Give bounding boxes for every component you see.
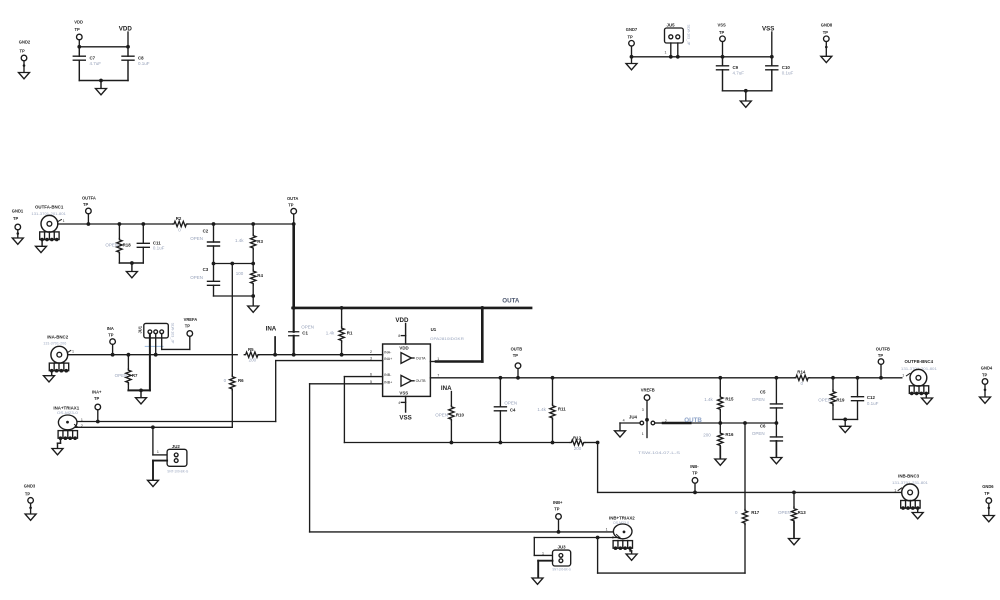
svg-text:SLW-103_JP: SLW-103_JP [170, 323, 174, 344]
svg-text:OUTA: OUTA [416, 357, 426, 361]
svg-text:OUTB: OUTB [684, 417, 702, 424]
svg-text:VSS: VSS [399, 391, 408, 396]
wire INA+ from op-amp to TRIAX1 [68, 361, 383, 424]
svg-text:TP: TP [20, 49, 26, 54]
resistor R1 [326, 306, 353, 355]
svg-text:INB+: INB+ [384, 380, 392, 384]
svg-text:OUTB: OUTB [511, 347, 523, 352]
svg-text:200: 200 [703, 432, 711, 437]
test point GND3 [24, 484, 36, 521]
test point INB+ [553, 500, 563, 532]
wire op-amp OUTA pin stub [430, 361, 436, 363]
resistor R4 [236, 264, 264, 297]
wire OUTB stub from JU4 pin2 [655, 419, 779, 425]
wire R2 to OUTA node [188, 223, 294, 225]
svg-text:1: 1 [894, 488, 896, 492]
svg-text:C12: C12 [867, 395, 876, 400]
svg-text:OPEN: OPEN [752, 397, 765, 402]
resistor R2 [173, 216, 188, 233]
wire TRIAX1 pin2 guard [76, 425, 233, 429]
svg-text:TP: TP [83, 202, 89, 207]
svg-text:OPEN: OPEN [818, 397, 831, 402]
svg-text:0.1uF: 0.1uF [138, 61, 150, 66]
wire VSS rail [632, 55, 774, 59]
test point GND6 [982, 484, 994, 522]
svg-text:4.7uF: 4.7uF [90, 61, 102, 66]
svg-text:OUTFA-BNC1: OUTFA-BNC1 [35, 205, 64, 210]
svg-text:TP: TP [719, 30, 725, 35]
svg-text:TP: TP [878, 353, 884, 358]
jumper JU2 [153, 427, 189, 473]
svg-text:OPEN: OPEN [435, 412, 448, 417]
svg-text:1.4k: 1.4k [326, 331, 335, 336]
wire INB+ feed [310, 384, 615, 534]
svg-text:100: 100 [236, 271, 244, 276]
wire + ground below R19 C12 [833, 418, 858, 433]
svg-text:OPEN: OPEN [301, 325, 314, 330]
svg-text:0.1uF: 0.1uF [867, 401, 879, 406]
svg-text:200: 200 [574, 446, 582, 451]
svg-text:INA-BNC2: INA-BNC2 [47, 334, 69, 339]
capacitor C10 [766, 57, 794, 91]
svg-text:INB+: INB+ [553, 500, 563, 505]
test point OUTA [287, 196, 298, 226]
svg-text:R18: R18 [123, 242, 132, 247]
resistor R11 [537, 378, 566, 445]
test point GND1 [12, 208, 24, 244]
svg-text:VSS: VSS [399, 414, 411, 421]
capacitor C6 [752, 423, 783, 464]
svg-text:INB+TRIAX2: INB+TRIAX2 [609, 515, 635, 520]
resistor R14 [795, 369, 810, 386]
svg-text:R1: R1 [347, 330, 353, 335]
resistor R17 labels [735, 510, 760, 515]
svg-text:4.7uF: 4.7uF [733, 71, 745, 76]
svg-text:TP: TP [823, 30, 829, 35]
capacitor C1 [289, 308, 314, 357]
node INA stub [266, 325, 277, 354]
resistor R13 [778, 492, 806, 544]
wire INA- input [68, 354, 238, 356]
node VSS at op-amp [398, 396, 411, 421]
test point VREFB [641, 387, 655, 437]
svg-text:VSS: VSS [762, 26, 774, 33]
wire OUTB to R17 loop [596, 423, 748, 573]
svg-text:JU3: JU3 [558, 545, 567, 550]
svg-text:JU5: JU5 [667, 22, 676, 27]
svg-text:SNT-100-BK-G: SNT-100-BK-G [552, 567, 571, 571]
svg-text:C8: C8 [138, 56, 144, 61]
svg-text:R13: R13 [798, 510, 807, 515]
svg-text:C2: C2 [203, 229, 209, 234]
svg-text:1: 1 [606, 527, 608, 531]
svg-text:SLW-103_JP: SLW-103_JP [687, 25, 691, 46]
resistor R18 [105, 222, 131, 263]
U1 designator [430, 327, 465, 341]
svg-text:R6: R6 [238, 378, 244, 383]
svg-text:OUTFB-BNC4: OUTFB-BNC4 [905, 359, 934, 364]
test point OUTFA [82, 195, 96, 226]
svg-text:OPEN: OPEN [752, 431, 765, 436]
jumper JU5 [665, 22, 691, 58]
svg-text:7: 7 [437, 374, 439, 378]
svg-text:VDD: VDD [395, 317, 409, 324]
svg-text:VDD: VDD [119, 26, 133, 33]
svg-text:C1: C1 [302, 330, 308, 335]
test point INB- [690, 464, 699, 492]
svg-text:1: 1 [81, 418, 83, 422]
connector INA+TRIAX1 [52, 406, 83, 455]
wire INA- to op-amp [259, 353, 382, 357]
svg-text:VSS: VSS [718, 23, 726, 28]
svg-text:TP: TP [692, 471, 698, 476]
connector INB-BNC3 [892, 473, 928, 519]
svg-text:C4: C4 [510, 407, 516, 412]
svg-text:R10: R10 [456, 412, 465, 417]
svg-text:TP: TP [25, 491, 31, 496]
svg-text:R7: R7 [132, 373, 138, 378]
svg-text:1: 1 [665, 51, 667, 55]
resistor R10 on node INA [435, 385, 464, 444]
svg-text:R19: R19 [836, 397, 845, 402]
svg-text:TP: TP [108, 332, 114, 337]
svg-text:OPA2810IDGKR: OPA2810IDGKR [430, 337, 465, 341]
capacitor C3 [190, 264, 219, 297]
resistor R16 [703, 423, 734, 465]
svg-text:INA+: INA+ [384, 357, 392, 361]
svg-text:OS-M23-0: OS-M23-0 [57, 411, 78, 415]
test point GND4 [980, 365, 993, 403]
svg-text:C10: C10 [782, 65, 791, 70]
svg-text:TP: TP [628, 34, 634, 39]
svg-text:INB-: INB- [690, 464, 699, 469]
svg-text:TSW-104-07-L-S: TSW-104-07-L-S [638, 451, 681, 455]
svg-text:GND6: GND6 [982, 484, 994, 489]
svg-text:R16: R16 [725, 432, 734, 437]
svg-text:R3: R3 [257, 239, 263, 244]
svg-text:1: 1 [72, 349, 74, 353]
svg-text:1: 1 [902, 374, 904, 378]
capacitor C9 [717, 57, 745, 91]
svg-text:VDD: VDD [74, 20, 83, 25]
resistor R7 [115, 353, 138, 391]
svg-text:R17: R17 [751, 510, 760, 515]
capacitor C7 [73, 47, 101, 81]
test point OUTB [511, 347, 523, 378]
svg-text:C5: C5 [760, 390, 766, 395]
svg-text:1: 1 [157, 450, 159, 454]
svg-text:C7: C7 [90, 56, 96, 61]
jumper JU4 [615, 414, 681, 455]
svg-text:3: 3 [642, 408, 644, 412]
test point VSS TP [718, 23, 726, 57]
node OUTA label [502, 297, 520, 304]
svg-text:JU4: JU4 [629, 414, 638, 419]
svg-text:INA+: INA+ [92, 390, 102, 395]
svg-text:INA: INA [441, 385, 452, 392]
resistor R12 [570, 435, 585, 450]
svg-text:1: 1 [437, 357, 439, 361]
wire mid divider [212, 262, 256, 266]
svg-text:TP: TP [984, 491, 990, 496]
connector INB+TRIAX2 [606, 515, 638, 560]
svg-text:OPEN: OPEN [190, 275, 203, 280]
wire JU3 pin2 to ground [532, 561, 553, 585]
svg-text:R2: R2 [176, 216, 182, 221]
svg-text:OPEN: OPEN [105, 242, 118, 247]
pin numbers U1 [370, 350, 439, 384]
svg-text:200: 200 [249, 358, 257, 363]
wire JU1 pin3 to VREFA [162, 334, 190, 350]
svg-text:INB-BNC3: INB-BNC3 [898, 473, 920, 478]
svg-text:OUTB: OUTB [416, 379, 427, 383]
jumper JU1 [137, 323, 174, 347]
resistor R19 [818, 378, 845, 420]
wire OUTA thick net [292, 224, 531, 362]
connector INA-BNC2 [43, 334, 74, 382]
node OUTB label [684, 417, 702, 424]
svg-text:OUTFB: OUTFB [876, 346, 890, 351]
test point VREFA [184, 317, 198, 336]
svg-text:4: 4 [398, 401, 400, 405]
capacitor C8 [122, 47, 150, 81]
svg-text:0.1uF: 0.1uF [782, 71, 794, 76]
svg-text:OUTA: OUTA [287, 196, 298, 201]
svg-text:3: 3 [370, 356, 372, 360]
svg-text:TP: TP [513, 353, 519, 358]
svg-text:OPEN: OPEN [778, 510, 791, 515]
svg-text:GND2: GND2 [19, 40, 31, 45]
svg-text:R14: R14 [797, 369, 806, 374]
svg-text:GND4: GND4 [981, 365, 993, 370]
svg-text:4: 4 [623, 419, 625, 423]
connector OUTFA-BNC1 [31, 205, 66, 253]
svg-text:0: 0 [735, 510, 738, 515]
wire + ground below R18 C11 [119, 261, 143, 278]
wire + ground below C7 C8 [79, 79, 128, 95]
svg-text:1.4k: 1.4k [704, 397, 713, 402]
svg-text:OPEN: OPEN [504, 400, 517, 405]
wire INB- rail [344, 377, 570, 443]
svg-text:TP: TP [554, 507, 560, 512]
svg-text:JU1: JU1 [137, 325, 142, 333]
op-amp U1 [383, 344, 431, 396]
svg-text:TP: TP [75, 27, 81, 32]
test point GND8 [821, 23, 833, 63]
svg-text:0: 0 [178, 228, 181, 233]
svg-text:R5: R5 [248, 347, 254, 352]
wire JU1 pin1 to ground [128, 334, 150, 404]
capacitor C4 [494, 378, 517, 445]
svg-text:1: 1 [63, 219, 65, 223]
capacitor C12 [852, 378, 879, 420]
svg-text:TP: TP [982, 373, 988, 378]
test point INA [107, 326, 116, 357]
resistor R5 [244, 347, 259, 363]
capacitor C11 [137, 222, 164, 263]
svg-text:OUTA: OUTA [502, 297, 520, 304]
test point VDD TP [74, 20, 83, 47]
svg-text:GND8: GND8 [821, 23, 833, 28]
svg-text:131-3701-206: 131-3701-206 [43, 342, 66, 346]
svg-text:OPEN: OPEN [190, 236, 203, 241]
svg-text:1: 1 [642, 432, 644, 436]
wire + ground below C3 R4 [214, 294, 259, 312]
wire TRIAX2 pin2 guard [534, 538, 620, 556]
svg-text:C6: C6 [760, 424, 766, 429]
wire JU1 pin2 [154, 334, 158, 357]
svg-text:VREFA: VREFA [184, 317, 198, 322]
jumper JU3 [534, 545, 571, 572]
svg-text:INB-: INB- [384, 373, 392, 377]
wire OUTFA net [58, 223, 173, 225]
svg-text:TP: TP [13, 216, 19, 221]
svg-text:R12: R12 [573, 435, 582, 440]
node VDD [119, 26, 133, 47]
wire JU2 pin2 to ground [148, 461, 168, 487]
svg-text:R11: R11 [558, 407, 566, 412]
svg-text:GND3: GND3 [24, 484, 36, 489]
svg-text:C9: C9 [733, 65, 739, 70]
wire VDD rail [77, 45, 129, 49]
capacitor C5 [752, 378, 783, 423]
svg-text:INA-: INA- [384, 350, 392, 354]
svg-text:VREFB: VREFB [641, 387, 655, 392]
test point GND2 [19, 40, 31, 79]
wire R12 to INB- input row [585, 441, 902, 495]
svg-text:8: 8 [398, 334, 400, 338]
svg-text:1.4k: 1.4k [537, 407, 546, 412]
node VDD at op-amp [395, 317, 409, 344]
svg-text:1.4k: 1.4k [235, 238, 244, 243]
resistor R15 [704, 378, 734, 423]
svg-text:1: 1 [542, 551, 544, 555]
svg-text:C3: C3 [203, 267, 209, 272]
svg-text:R15: R15 [725, 397, 734, 402]
resistor R6 with vertical guard trace [224, 264, 245, 428]
test point INA+ [92, 390, 102, 422]
svg-text:SNT-100-BK-G: SNT-100-BK-G [167, 469, 188, 473]
svg-text:OUTFA: OUTFA [82, 195, 96, 200]
capacitor C2 [190, 222, 219, 263]
svg-text:JU2: JU2 [172, 444, 181, 449]
svg-text:VDD: VDD [399, 346, 408, 351]
connector OUTFB-BNC4 [901, 359, 937, 404]
node VSS [762, 26, 774, 57]
wire OUTB main [430, 376, 901, 380]
svg-text:U1: U1 [431, 327, 437, 332]
svg-text:OPEN: OPEN [115, 373, 128, 378]
svg-text:GND7: GND7 [626, 27, 638, 32]
test point GND7 [626, 27, 638, 70]
svg-text:INA: INA [107, 326, 114, 331]
svg-text:0: 0 [224, 378, 227, 383]
svg-text:TP: TP [288, 202, 294, 207]
svg-text:R4: R4 [257, 273, 263, 278]
test point OUTFB [876, 346, 890, 378]
svg-text:INA: INA [266, 325, 277, 332]
svg-text:0.1uF: 0.1uF [153, 246, 165, 251]
svg-text:GND1: GND1 [12, 208, 24, 213]
wire + ground below C9 C10 [723, 89, 772, 107]
svg-text:TP: TP [185, 323, 191, 328]
svg-text:2: 2 [370, 350, 372, 354]
svg-text:TP: TP [94, 396, 100, 401]
resistor R3 [235, 222, 263, 263]
